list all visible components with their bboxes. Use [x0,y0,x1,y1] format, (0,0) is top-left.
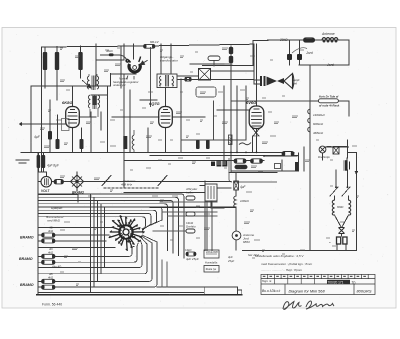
svg-text:Hvis Dr Tale af: Hvis Dr Tale af [319,95,339,99]
svg-text:af rude 4t-Rask: af rude 4t-Rask [319,104,340,108]
svg-text:Alm.4Ω: Alm.4Ω [51,265,62,269]
svg-text:Antenne: Antenne [321,32,335,36]
svg-text:BRAMO: BRAMO [19,257,33,261]
svg-text:468kHz: 468kHz [313,131,324,135]
svg-text:Jord: Jord [326,63,334,67]
svg-text:undertrykt: undertrykt [113,83,126,87]
svg-text:Drehkolje: Drehkolje [318,155,330,159]
svg-text:4μF: 4μF [34,135,41,139]
svg-text:Bu.o.f.Dk.o.t: Bu.o.f.Dk.o.t [262,289,281,293]
svg-text:100kΩ: 100kΩ [240,199,250,203]
svg-text:4kΩ: 4kΩ [48,251,54,255]
svg-text:4μF 8μF: 4μF 8μF [47,164,60,168]
svg-text:1400kHz: 1400kHz [313,113,325,117]
svg-text:med 98kΩ: med 98kΩ [47,219,61,223]
svg-text:.......... . ..........: .......... . .......... : .. Højt : 8(mm [261,268,303,272]
svg-text:t.afbr.: t.afbr. [186,191,194,195]
svg-text:transformator: transformator [160,59,179,63]
svg-text:4kΩ: 4kΩ [48,229,54,233]
svg-text:20kΩ: 20kΩ [279,38,288,42]
svg-text:800Ω: 800Ω [337,205,343,209]
svg-text:6V6G: 6V6G [246,100,256,105]
svg-text:BRAMO: BRAMO [20,235,34,239]
svg-text:6863: 6863 [243,240,250,244]
svg-text:7(): 7() [352,280,356,284]
svg-text:6K8G: 6K8G [62,100,72,105]
svg-text:Modellerede uden fingitakke :: Modellerede uden fingitakke : 4,5 V [255,254,304,258]
svg-text:BRAMO: BRAMO [72,191,85,195]
svg-text:468 kHz: 468 kHz [121,183,133,187]
svg-text:700/20 171: 700/20 171 [328,280,344,284]
svg-text:4μF 25μF: 4μF 25μF [186,257,199,261]
svg-text:Hjælpetr.: Hjælpetr. [51,206,63,210]
svg-text:VOLT: VOLT [41,189,50,193]
svg-text:med Kassemester : (Ind: med Kassemester : (Indtal kgs : 8mm [261,262,313,266]
svg-text:Diagram for Mini 568: Diagram for Mini 568 [289,288,326,293]
svg-text:Drehko: Drehko [186,225,196,229]
svg-text:Form. 56 440: Form. 56 440 [42,303,62,307]
svg-text:±4kΩ: ±4kΩ [185,248,191,252]
svg-text:Tegn. nr.: Tegn. nr. [262,279,272,283]
svg-text:Hovedafbr.: Hovedafbr. [205,261,218,265]
svg-text:800GRS: 800GRS [357,288,372,293]
svg-text:25μF: 25μF [227,259,234,263]
svg-text:4kΩ: 4kΩ [48,276,54,280]
svg-text:6Q7G: 6Q7G [149,101,160,106]
svg-text:8M-kV: 8M-kV [150,40,160,44]
svg-text:felt: felt [293,82,297,86]
svg-text:10x1/2W: 10x1/2W [206,250,219,254]
svg-text:Skala lys: Skala lys [206,267,217,271]
svg-text:Jord: Jord [305,51,313,55]
svg-text:BRAMO: BRAMO [20,283,34,287]
